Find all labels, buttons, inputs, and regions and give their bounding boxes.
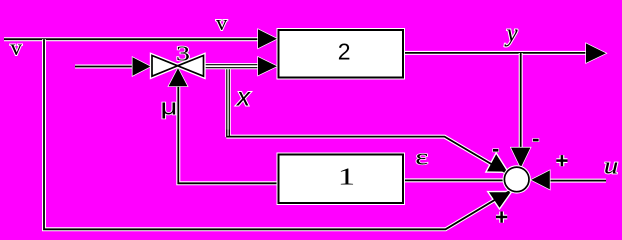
sign plus (v feedback input) bbox=[496, 212, 507, 223]
arrowhead y output bbox=[586, 43, 606, 63]
summing junction bbox=[503, 165, 531, 193]
sign plus (u input) bbox=[556, 155, 567, 166]
wire y output bbox=[404, 51, 586, 55]
svg-text:y: y bbox=[504, 20, 519, 47]
svg-text:3: 3 bbox=[176, 42, 190, 65]
wire v feedback branch (left vertical + bottom rail + diagonal to summer) bbox=[44, 39, 514, 229]
svg-text:1: 1 bbox=[338, 164, 355, 190]
svg-text:v: v bbox=[216, 10, 228, 35]
wire epsilon (summer output into block 1) bbox=[404, 178, 506, 182]
svg-text:x: x bbox=[235, 82, 251, 112]
arrowhead mu into valve bbox=[169, 68, 188, 86]
wire v main (top horizontal) bbox=[4, 37, 258, 41]
block 1 bbox=[277, 153, 406, 206]
svg-text:v: v bbox=[10, 35, 22, 61]
label mu bbox=[161, 94, 178, 120]
svg-text:u: u bbox=[604, 152, 619, 179]
wire valve output double line to block 2 bbox=[204, 65, 260, 68]
arrowhead v feedback into summer bbox=[489, 192, 511, 208]
svg-text:μ: μ bbox=[161, 94, 178, 120]
arrowhead y into summer bbox=[511, 148, 530, 168]
arrowhead x into summer bbox=[487, 154, 507, 171]
block 2 bbox=[277, 28, 406, 80]
wire x branch (double vertical) bbox=[227, 65, 230, 138]
arrowhead u into summer bbox=[531, 170, 550, 189]
svg-text:2: 2 bbox=[338, 39, 351, 65]
arrowhead valve output into block 2 bbox=[258, 57, 277, 75]
label u bbox=[604, 152, 619, 179]
sign minus (x input) bbox=[493, 149, 498, 152]
halo under v-feedback arrowhead bbox=[489, 192, 511, 208]
wire mu (block 1 output up into valve) bbox=[178, 84, 277, 183]
svg-text:ε: ε bbox=[415, 144, 428, 169]
wire valve input bbox=[75, 65, 133, 69]
halo under x-feedback arrowhead bbox=[487, 154, 507, 171]
wire u input bbox=[550, 179, 606, 183]
label epsilon bbox=[415, 144, 428, 169]
valve V1 (bowtie symbol 3) bbox=[152, 56, 204, 77]
arrowhead v into block 2 bbox=[258, 29, 277, 48]
arrowhead into valve bbox=[133, 57, 151, 76]
wire y feedback branch down to summer bbox=[519, 53, 523, 150]
label 3 (valve) bbox=[176, 42, 190, 65]
wire x feedback to summer bbox=[226, 130, 508, 174]
sign minus (y input) bbox=[533, 139, 539, 142]
